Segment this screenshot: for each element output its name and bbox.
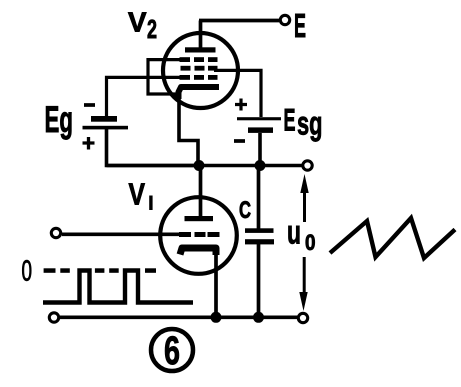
dashed zero-level line — [44, 268, 156, 273]
capacitor C bottom lead — [257, 244, 261, 317]
wire anode to terminal E — [199, 19, 279, 23]
capacitor C top plate — [245, 228, 274, 233]
wire Eg to bottom bus — [107, 129, 200, 166]
V2 g1 lead to Eg — [107, 77, 184, 116]
V2 cathode bar with hook — [179, 87, 220, 99]
label V2 — [128, 6, 157, 44]
svg-text:6: 6 — [164, 329, 180, 373]
V1 anode bar — [185, 216, 214, 221]
V2 grid g3 (dashed row 1) — [180, 57, 218, 62]
svg-text:C: C — [239, 197, 251, 224]
V1 cathode bar with right-side lead — [180, 248, 216, 255]
capacitor C top lead — [257, 166, 261, 229]
V1 cathode lead down — [214, 252, 218, 317]
u0 arrow lower segment with arrowhead — [303, 257, 306, 292]
V2 cathode lead down with jog — [179, 95, 198, 166]
output terminal top — [303, 161, 312, 170]
u0 arrow upper segment with arrowhead — [303, 192, 306, 222]
V2 grid g1 (dashed row 3) — [180, 75, 218, 80]
svg-text:2: 2 — [147, 14, 157, 44]
bottom bus wire — [60, 315, 298, 319]
label V1 — [129, 177, 153, 212]
figure number circle 6 — [151, 329, 193, 371]
junction node (C / bus) — [253, 312, 264, 323]
battery Esg positive plate (long thin) — [237, 117, 281, 120]
svg-text:0: 0 — [305, 230, 316, 255]
Esg plus sign — [235, 99, 247, 111]
svg-text:0: 0 — [22, 256, 33, 288]
svg-text:sg: sg — [297, 105, 323, 142]
junction node (V1 cathode / bus) — [211, 312, 222, 323]
input terminal — [51, 228, 60, 237]
input pulse waveform — [43, 271, 193, 303]
V1 grid lead to input terminal — [62, 233, 181, 237]
V2 anode lead wire — [199, 21, 203, 49]
capacitor C bottom plate — [245, 239, 274, 244]
tube V2 envelope — [163, 33, 238, 108]
bracket connecting g3 and cathode leads (left of V2) — [148, 60, 185, 94]
svg-text:Eg: Eg — [45, 99, 74, 140]
junction node (V2 cathode / V1 anode) — [194, 160, 205, 171]
bottom terminal left — [49, 313, 58, 322]
sawtooth output waveform — [330, 218, 455, 258]
V1 grid (dashed) — [179, 232, 220, 237]
terminal E — [280, 15, 289, 24]
Eg minus sign — [84, 103, 95, 107]
V2 anode (plate) bar — [185, 47, 216, 52]
svg-text:V: V — [129, 177, 146, 212]
battery Eg negative plate (short thick) — [91, 116, 117, 122]
output terminal bottom — [298, 313, 307, 322]
junction node (Esg / C) — [255, 160, 266, 171]
battery Esg negative plate (short thick) — [248, 127, 273, 132]
wire Esg to node bus — [258, 133, 262, 166]
svg-text:V: V — [128, 6, 147, 37]
battery Eg positive plate (long thin) — [83, 126, 129, 130]
V2 g2 (screen) lead to Esg — [214, 70, 261, 117]
label Esg — [284, 102, 323, 142]
middle bus wire — [107, 164, 303, 168]
svg-text:E: E — [294, 7, 306, 44]
Esg minus sign — [234, 139, 245, 143]
V2 grid g2 (dashed row 2) — [181, 66, 218, 71]
svg-text:u: u — [287, 213, 301, 250]
label u0 — [287, 213, 316, 255]
svg-text:E: E — [284, 102, 296, 138]
tube V1 envelope — [160, 197, 237, 274]
Eg plus sign — [83, 137, 95, 150]
V1 anode lead from node — [199, 166, 203, 217]
